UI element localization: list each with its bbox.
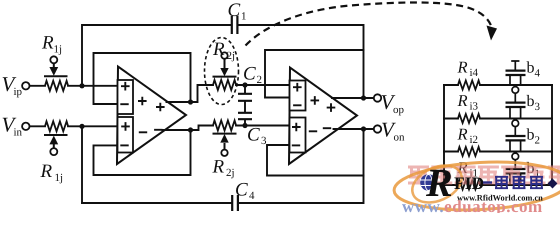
svg-text:2j: 2j: [227, 50, 236, 62]
svg-text:b: b: [527, 60, 535, 77]
svg-text:in: in: [14, 126, 23, 138]
svg-text:op: op: [393, 104, 405, 116]
svg-text:on: on: [394, 131, 406, 143]
svg-text:i2: i2: [470, 134, 479, 146]
svg-text:i3: i3: [470, 101, 479, 113]
svg-text:4: 4: [249, 190, 255, 202]
svg-text:4: 4: [535, 67, 541, 79]
svg-text:ip: ip: [14, 86, 23, 98]
svg-text:b: b: [527, 93, 535, 110]
svg-text:R: R: [41, 32, 54, 53]
svg-text:3: 3: [261, 135, 267, 147]
svg-text:3: 3: [535, 101, 541, 113]
svg-text:1: 1: [241, 11, 247, 23]
svg-text:R: R: [457, 58, 468, 77]
svg-text:R: R: [457, 91, 468, 110]
svg-text:C: C: [235, 180, 248, 201]
svg-text:C: C: [247, 125, 260, 146]
svg-text:2j: 2j: [226, 167, 235, 179]
svg-text:C: C: [243, 63, 256, 84]
svg-text:FID: FID: [454, 173, 484, 193]
svg-text:2: 2: [535, 134, 541, 146]
svg-text:www.eduatop.com: www.eduatop.com: [402, 197, 543, 213]
svg-text:C: C: [228, 0, 241, 21]
svg-text:b: b: [527, 127, 535, 144]
svg-text:R: R: [40, 161, 53, 182]
svg-text:2: 2: [257, 74, 263, 86]
svg-text:R: R: [212, 156, 225, 177]
svg-text:i4: i4: [470, 67, 479, 79]
svg-text:R: R: [212, 39, 225, 60]
svg-text:1j: 1j: [54, 43, 63, 55]
svg-text:1j: 1j: [55, 172, 64, 184]
svg-text:R: R: [457, 125, 468, 144]
